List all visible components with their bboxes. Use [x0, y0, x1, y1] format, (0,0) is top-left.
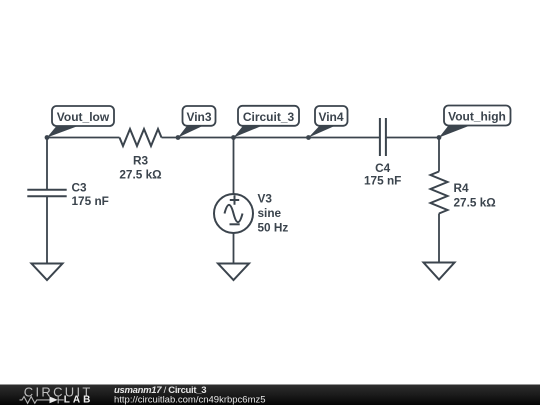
- svg-text:Vout_low: Vout_low: [57, 110, 110, 124]
- svg-text:V3: V3: [258, 192, 273, 206]
- ground (right, below R4): [424, 263, 455, 280]
- wire: horizontal from R3 through Vin3, Circuit_3, Vin4 to C4: [162, 137, 380, 139]
- label C4 designator: [375, 161, 391, 175]
- svg-text:175 nF: 175 nF: [364, 173, 401, 187]
- ground (middle, below V3): [218, 264, 249, 281]
- wire: vertical from Vout_low node down to C3: [46, 138, 48, 190]
- svg-text:Vin3: Vin3: [186, 110, 211, 124]
- capacitor C4: [380, 118, 386, 156]
- svg-text:LAB: LAB: [64, 394, 94, 405]
- label C3 value: [72, 194, 109, 208]
- svg-text:50 Hz: 50 Hz: [258, 221, 289, 235]
- voltage source V3: [214, 194, 253, 233]
- ground (left, below C3): [32, 264, 63, 281]
- label C3 designator: [72, 181, 88, 195]
- node tag Vout_low: [47, 106, 114, 138]
- wire: vertical from C3 down to ground: [46, 196, 48, 263]
- CircuitLab logo schematic line (resistor + diode): [20, 396, 64, 403]
- svg-text:R3: R3: [133, 154, 149, 168]
- label R3 designator: [133, 154, 149, 168]
- CircuitLab logo wordmark LAB: [64, 394, 94, 405]
- node tag Vout_high: [439, 106, 511, 138]
- label V3 frequency: [258, 221, 289, 235]
- junction dot at Vout_low node: [45, 135, 50, 140]
- svg-text:R4: R4: [454, 181, 470, 195]
- CircuitLab logo wordmark CIRCUIT: [24, 384, 93, 399]
- label V3 type: [258, 206, 282, 220]
- label V3 designator: [258, 192, 273, 206]
- svg-text:http://circuitlab.com/cn49krbp: http://circuitlab.com/cn49krbpc6mz5: [114, 394, 266, 405]
- node tag Circuit_3: [234, 106, 300, 138]
- resistor R3: [120, 129, 162, 146]
- footer bar: [0, 385, 540, 405]
- svg-text:27.5 kΩ: 27.5 kΩ: [119, 168, 161, 182]
- junction dot at Vout_high node: [437, 135, 442, 140]
- junction dot at Vin3 node: [176, 135, 181, 140]
- svg-text:Vin4: Vin4: [318, 110, 343, 124]
- footer url line: [114, 394, 266, 405]
- label C4 value: [364, 173, 401, 187]
- wire: vertical from V3 down to ground: [233, 233, 235, 264]
- wire: horizontal from C4 to Vout_high node: [386, 137, 439, 139]
- junction dot at Circuit_3 node: [231, 135, 236, 140]
- node tag Vin4: [309, 106, 348, 138]
- label R4 designator: [454, 181, 470, 195]
- svg-text:Vout_high: Vout_high: [448, 110, 506, 124]
- wire: vertical from R4 down to ground: [438, 214, 440, 263]
- resistor R4: [431, 172, 448, 214]
- label R4 value: [454, 196, 496, 210]
- node tag Vin3: [178, 106, 216, 138]
- svg-text:C3: C3: [72, 181, 88, 195]
- capacitor C3: [27, 190, 66, 197]
- wire: vertical from Circuit_3 node down to V3: [233, 138, 235, 195]
- svg-text:Circuit_3: Circuit_3: [243, 110, 295, 124]
- svg-text:27.5 kΩ: 27.5 kΩ: [454, 196, 496, 210]
- svg-text:sine: sine: [258, 206, 282, 220]
- wire: left horizontal from Vout_low node to R3: [47, 137, 120, 139]
- label R3 value: [119, 168, 161, 182]
- svg-text:175 nF: 175 nF: [72, 194, 109, 208]
- footer credit line: [114, 385, 206, 396]
- wire: vertical from Vout_high node down to R4: [438, 138, 440, 172]
- junction dot at Vin4 node: [306, 135, 311, 140]
